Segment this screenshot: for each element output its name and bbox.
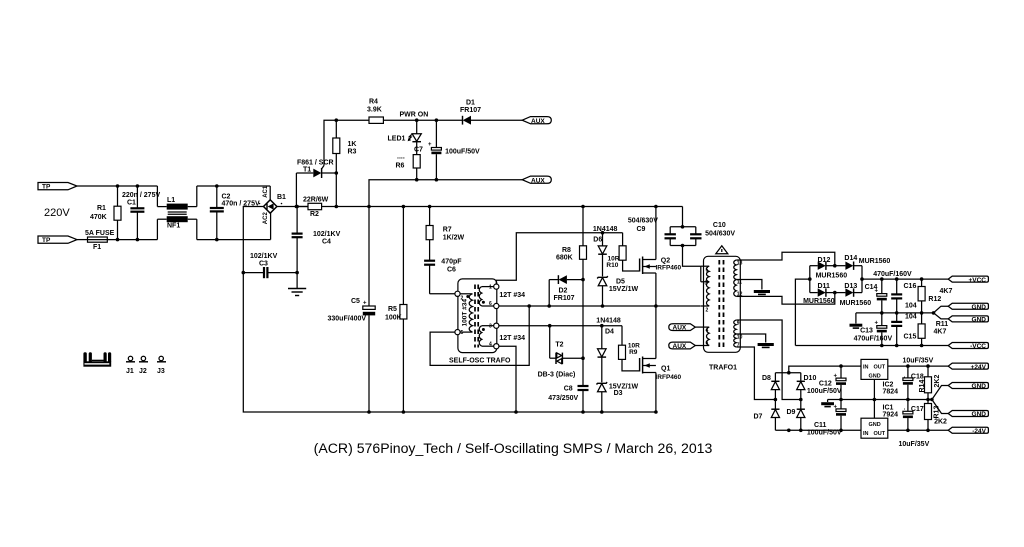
wire IC2 out bbox=[888, 365, 948, 367]
svg-text:C10: C10 bbox=[713, 222, 726, 229]
svg-text:C2: C2 bbox=[222, 194, 231, 201]
svg-text:....: .... bbox=[397, 154, 405, 161]
svg-text:C16: C16 bbox=[904, 283, 917, 290]
diac T2 DB-3 bbox=[538, 326, 583, 379]
svg-text:R4: R4 bbox=[369, 99, 378, 106]
svg-text:MUR1560: MUR1560 bbox=[859, 258, 891, 265]
svg-text:-24V: -24V bbox=[972, 428, 986, 435]
diode D7 bbox=[754, 409, 780, 430]
svg-text:OUT: OUT bbox=[874, 364, 886, 370]
svg-text:2K2: 2K2 bbox=[934, 419, 947, 426]
pin 3 bbox=[494, 323, 499, 328]
svg-text:C4: C4 bbox=[322, 239, 331, 246]
capacitor C17 bbox=[903, 400, 924, 431]
svg-text:104: 104 bbox=[905, 303, 917, 310]
capacitor C9 504/630V bbox=[628, 207, 696, 246]
svg-text:T1: T1 bbox=[303, 167, 311, 174]
primary winding 5-3 bbox=[701, 266, 709, 282]
diode D10 bbox=[797, 373, 817, 409]
wire bridge joins bbox=[775, 372, 800, 374]
wire rect left common bbox=[809, 266, 811, 293]
connector J3 bbox=[157, 356, 166, 375]
svg-text:TP: TP bbox=[42, 184, 51, 191]
capacitor C14 bbox=[865, 279, 887, 313]
svg-text:C15: C15 bbox=[904, 333, 917, 340]
wire pin10 to ground bbox=[743, 334, 766, 343]
svg-text:IN: IN bbox=[863, 431, 869, 437]
pin 4 bbox=[494, 344, 499, 349]
wire minus to bottom bus bbox=[243, 273, 280, 412]
terminal AUX (mid) bbox=[522, 176, 551, 184]
terminal -24V bbox=[948, 427, 988, 435]
terminal GND (24 upper) bbox=[932, 383, 989, 400]
resistor R1 bbox=[90, 186, 121, 240]
secondary winding 10-7 bbox=[734, 334, 743, 349]
pin 6 bbox=[494, 303, 499, 308]
svg-text:2: 2 bbox=[706, 308, 709, 314]
svg-text:D13: D13 bbox=[844, 283, 857, 290]
svg-text:D7: D7 bbox=[754, 414, 763, 421]
svg-text:4: 4 bbox=[706, 328, 709, 334]
capacitor C7 100uF/50V bbox=[428, 120, 480, 180]
svg-text:C17: C17 bbox=[911, 406, 924, 413]
capacitor C13 bbox=[854, 313, 893, 346]
svg-text:F861 / SCR: F861 / SCR bbox=[297, 160, 334, 167]
wire mid gnd rail bbox=[856, 312, 934, 314]
resistor R6 bbox=[396, 147, 424, 180]
resistor R10 bbox=[606, 233, 639, 271]
svg-text:220V: 220V bbox=[44, 207, 70, 219]
svg-text:102/1KV: 102/1KV bbox=[250, 253, 278, 260]
svg-text:(ACR) 576Pinoy_Tech / Self-Osc: (ACR) 576Pinoy_Tech / Self-Oscillating S… bbox=[314, 440, 713, 456]
wire pin3 row bbox=[499, 325, 622, 327]
svg-text:B1: B1 bbox=[277, 194, 286, 201]
svg-text:12T #34: 12T #34 bbox=[499, 292, 525, 299]
terminal GND (vcc upper) bbox=[934, 303, 989, 313]
wire pin7 to d-bridge bbox=[743, 347, 775, 400]
resistor R13 2K2 bbox=[925, 400, 948, 431]
svg-text:C5: C5 bbox=[351, 298, 360, 305]
aux winding 4-6 bbox=[695, 327, 710, 346]
ground bbox=[288, 289, 306, 296]
svg-text:7824: 7824 bbox=[883, 388, 899, 395]
thyristor T1 F861/SCR bbox=[296, 160, 336, 179]
capacitor C10 504/630V bbox=[670, 222, 735, 246]
secondary winding 11-12 bbox=[734, 280, 743, 298]
terminal GND (vcc lower) bbox=[934, 313, 989, 324]
diode D13 MUR1560 bbox=[835, 283, 871, 307]
svg-text:R9: R9 bbox=[629, 349, 638, 356]
svg-text:C18: C18 bbox=[911, 374, 924, 381]
diode D4 1N4148 bbox=[596, 318, 621, 383]
svg-text:R5: R5 bbox=[388, 306, 397, 313]
svg-text:R14: R14 bbox=[919, 380, 926, 393]
capacitor C1 bbox=[122, 186, 160, 240]
svg-text:AUX: AUX bbox=[531, 118, 545, 125]
wire pin13 to rect row bbox=[743, 252, 835, 265]
svg-text:+: + bbox=[875, 321, 879, 327]
pin 2 bbox=[455, 291, 460, 296]
svg-text:R10: R10 bbox=[606, 262, 618, 269]
svg-text:AC2: AC2 bbox=[263, 212, 269, 225]
svg-text:1N4148: 1N4148 bbox=[596, 318, 621, 325]
svg-text:1: 1 bbox=[489, 285, 492, 291]
svg-text:5: 5 bbox=[461, 330, 464, 336]
svg-text:IN: IN bbox=[863, 364, 869, 370]
svg-text:2: 2 bbox=[461, 296, 464, 302]
terminal AUX (top) bbox=[522, 117, 551, 125]
capacitor C5 330uF/400V bbox=[328, 207, 376, 413]
capacitor C3 bbox=[243, 253, 297, 278]
wire pin4 to bottom bus bbox=[499, 346, 516, 412]
svg-text:+VCC: +VCC bbox=[968, 277, 986, 284]
svg-text:C11: C11 bbox=[814, 422, 827, 429]
svg-text:T2: T2 bbox=[555, 342, 563, 349]
svg-text:100uF/50V: 100uF/50V bbox=[807, 388, 842, 395]
capacitor C2 bbox=[210, 186, 260, 240]
wire pin11 to ground bbox=[743, 280, 762, 290]
connector J2 bbox=[139, 356, 148, 375]
svg-text:100K: 100K bbox=[385, 315, 402, 322]
svg-text:3: 3 bbox=[489, 324, 492, 330]
wire bridge plus bbox=[277, 206, 308, 208]
terminal AUX (trafo lower) bbox=[669, 342, 696, 350]
svg-text:1N4148: 1N4148 bbox=[593, 226, 618, 233]
warning triangle bbox=[716, 246, 728, 254]
svg-text:C3: C3 bbox=[259, 261, 268, 268]
regulator IC1 7924 bbox=[861, 400, 898, 439]
terminal GND (24 lower) bbox=[932, 400, 989, 419]
svg-text:D9: D9 bbox=[787, 409, 796, 416]
terminal -VCC bbox=[948, 343, 988, 351]
resistor R11 4K7 bbox=[918, 313, 948, 346]
svg-text:MUR1560: MUR1560 bbox=[816, 272, 848, 279]
terminal TP (top) bbox=[38, 183, 77, 191]
LED LED1 bbox=[388, 120, 422, 154]
wire rect right common bbox=[861, 266, 863, 293]
svg-text:Q2: Q2 bbox=[661, 258, 670, 265]
primary winding 100T bbox=[460, 294, 473, 332]
capacitor C6 470pF bbox=[424, 259, 462, 294]
svg-text:473/250V: 473/250V bbox=[548, 395, 578, 402]
wire D2 left to midpoint bbox=[548, 280, 550, 306]
svg-text:100uF/50V: 100uF/50V bbox=[445, 149, 480, 156]
svg-text:IRFP460: IRFP460 bbox=[656, 265, 682, 272]
svg-text:D6: D6 bbox=[593, 237, 602, 244]
svg-text:220n / 275V: 220n / 275V bbox=[122, 192, 160, 199]
resistor R14 2K2 bbox=[919, 366, 941, 399]
wire -VCC rail bbox=[795, 345, 948, 347]
svg-text:GND: GND bbox=[972, 411, 987, 418]
svg-text:12T #34: 12T #34 bbox=[499, 335, 525, 342]
svg-text:C8: C8 bbox=[564, 386, 573, 393]
svg-text:5: 5 bbox=[706, 268, 709, 274]
wire R8/D2 junction down bbox=[582, 280, 584, 386]
capacitor C15 104 bbox=[891, 313, 917, 346]
wire +VCC rail bbox=[862, 278, 948, 280]
svg-text:LED1: LED1 bbox=[388, 136, 406, 143]
core bbox=[474, 285, 476, 348]
svg-text:R3: R3 bbox=[348, 149, 357, 156]
svg-text:3: 3 bbox=[705, 281, 708, 287]
svg-text:104: 104 bbox=[905, 314, 917, 321]
svg-text:AUX: AUX bbox=[673, 343, 687, 350]
wire SCR gate up bbox=[324, 120, 369, 165]
svg-text:504/630V: 504/630V bbox=[628, 218, 658, 225]
node dots R1 bbox=[116, 184, 120, 188]
terminal TP (bottom) bbox=[38, 236, 77, 244]
svg-text:6: 6 bbox=[489, 301, 492, 307]
svg-text:IC1: IC1 bbox=[883, 405, 894, 412]
diode D1 FR107 bbox=[460, 100, 522, 125]
svg-text:D12: D12 bbox=[818, 257, 831, 264]
svg-text:+: + bbox=[834, 374, 838, 380]
svg-text:10uF/35V: 10uF/35V bbox=[899, 441, 930, 448]
svg-text:470pF: 470pF bbox=[441, 259, 462, 266]
wire bus after R2 bbox=[336, 206, 682, 208]
zener D5 15VZ/1W bbox=[597, 276, 638, 306]
zener D3 15VZ/1W bbox=[597, 382, 639, 412]
svg-text:C1: C1 bbox=[127, 200, 136, 207]
wire midpoint row bbox=[499, 305, 701, 307]
svg-text:10uF/35V: 10uF/35V bbox=[903, 358, 934, 365]
svg-text:+: + bbox=[875, 289, 879, 295]
svg-text:-VCC: -VCC bbox=[970, 343, 986, 350]
resistor R9 bbox=[619, 326, 641, 371]
capacitor C8 473/250V bbox=[548, 386, 588, 413]
svg-text:R11: R11 bbox=[936, 321, 949, 328]
wire pin12 to rect row bbox=[743, 293, 835, 305]
connector J1 bbox=[126, 356, 135, 375]
svg-text:4K7: 4K7 bbox=[934, 328, 947, 335]
svg-text:FR107: FR107 bbox=[460, 107, 481, 114]
svg-text:AUX: AUX bbox=[531, 177, 545, 184]
svg-text:2K2: 2K2 bbox=[934, 375, 941, 388]
svg-text:J2: J2 bbox=[139, 368, 147, 375]
svg-text:GND: GND bbox=[869, 374, 881, 380]
terminal +VCC bbox=[948, 276, 988, 284]
terminal +24V bbox=[948, 363, 988, 371]
svg-text:GND: GND bbox=[972, 383, 987, 390]
diode D6 1N4148 bbox=[593, 226, 618, 276]
wire top AC bbox=[77, 185, 157, 187]
diode D9 bbox=[787, 409, 805, 430]
svg-text:C12: C12 bbox=[819, 381, 832, 388]
svg-text:C7: C7 bbox=[414, 147, 423, 154]
transistor Q1 IRFP460 bbox=[640, 306, 682, 412]
secondary winding 12T (upper) bbox=[479, 287, 525, 306]
svg-text:OUT: OUT bbox=[874, 431, 886, 437]
svg-text:3.9K: 3.9K bbox=[367, 107, 382, 114]
diode D11 MUR1560 bbox=[803, 283, 835, 305]
svg-text:D5: D5 bbox=[616, 279, 625, 286]
wire top to D1 bbox=[417, 119, 462, 121]
svg-text:10: 10 bbox=[737, 335, 743, 341]
svg-text:GND: GND bbox=[972, 304, 987, 311]
svg-text:330uF/400V: 330uF/400V bbox=[328, 316, 367, 323]
wire aux mid bbox=[369, 180, 522, 207]
wire mid gnd rail (24V) bbox=[828, 399, 932, 401]
svg-text:GND: GND bbox=[972, 316, 987, 323]
resistor R3 bbox=[333, 120, 357, 173]
node R3 top bbox=[335, 118, 339, 122]
secondary winding 9-10 bbox=[734, 320, 743, 334]
svg-text:100T #34: 100T #34 bbox=[462, 299, 469, 327]
svg-text:504/630V: 504/630V bbox=[705, 231, 735, 238]
svg-text:R2: R2 bbox=[310, 211, 319, 218]
wire pin1 riser bbox=[496, 233, 622, 284]
choke L1 / NF1 bbox=[157, 186, 216, 240]
ground pin11 bbox=[754, 292, 770, 295]
svg-text:C9: C9 bbox=[637, 226, 646, 233]
fuse F1 bbox=[85, 230, 115, 251]
regulator IC2 7824 bbox=[861, 359, 898, 399]
wire bridge minus bbox=[243, 207, 263, 273]
wire bottom -24 rail bbox=[775, 429, 861, 431]
transformer TR self-osc body bbox=[449, 279, 511, 365]
svg-text:D1: D1 bbox=[466, 100, 475, 107]
svg-text:NF1: NF1 bbox=[167, 223, 180, 230]
svg-text:4K7: 4K7 bbox=[940, 288, 953, 295]
svg-text:MUR1560: MUR1560 bbox=[840, 300, 872, 307]
svg-text:11: 11 bbox=[737, 280, 743, 286]
resistor R5 100K bbox=[385, 207, 407, 413]
capacitor C18 bbox=[903, 366, 924, 399]
wire IC1 out bbox=[888, 429, 948, 431]
svg-text:R6: R6 bbox=[396, 163, 405, 170]
svg-text:470K: 470K bbox=[90, 214, 107, 221]
bridge rectifier B1 bbox=[259, 185, 286, 224]
svg-text:R8: R8 bbox=[562, 247, 571, 254]
svg-text:+: + bbox=[834, 404, 838, 410]
primary winding 3-2 bbox=[701, 281, 709, 314]
resistor R12 4K7 bbox=[918, 279, 952, 313]
svg-text:15VZ/1W: 15VZ/1W bbox=[609, 286, 639, 293]
diode D8 bbox=[762, 373, 780, 409]
wire SCR anode down bbox=[295, 173, 297, 207]
svg-text:7: 7 bbox=[737, 343, 740, 349]
svg-text:D14: D14 bbox=[844, 255, 857, 262]
svg-text:D4: D4 bbox=[605, 328, 614, 335]
svg-text:J1: J1 bbox=[126, 368, 134, 375]
svg-text:F1: F1 bbox=[93, 244, 101, 251]
resistor R4 bbox=[367, 99, 417, 124]
svg-text:J3: J3 bbox=[157, 368, 165, 375]
svg-text:22R/6W: 22R/6W bbox=[303, 197, 329, 204]
svg-text:R12: R12 bbox=[928, 296, 941, 303]
ground mid rail bbox=[850, 313, 863, 328]
wire pin5 to midpoint bbox=[430, 306, 529, 365]
svg-text:7924: 7924 bbox=[883, 412, 899, 419]
svg-text:TRAFO1: TRAFO1 bbox=[709, 364, 737, 371]
svg-text:6: 6 bbox=[706, 341, 709, 347]
svg-text:AC1: AC1 bbox=[263, 185, 269, 198]
svg-text:13: 13 bbox=[737, 261, 743, 267]
svg-text:9: 9 bbox=[737, 321, 740, 327]
capacitor C16 104 bbox=[891, 279, 917, 313]
svg-text:TP: TP bbox=[42, 237, 51, 244]
svg-text:R1: R1 bbox=[97, 205, 106, 212]
transformer TRAFO1 body bbox=[704, 256, 741, 371]
svg-text:100uF/50V: 100uF/50V bbox=[807, 430, 842, 437]
svg-text:IC2: IC2 bbox=[883, 381, 894, 388]
resistor R2 bbox=[296, 197, 336, 219]
pin 1 bbox=[494, 284, 499, 289]
svg-text:D3: D3 bbox=[614, 390, 623, 397]
ground mid 24V bbox=[821, 400, 834, 407]
svg-text:4: 4 bbox=[489, 342, 492, 348]
svg-text:MUR1560: MUR1560 bbox=[803, 298, 835, 305]
svg-text:470uF/160V: 470uF/160V bbox=[854, 336, 893, 343]
svg-text:470uF/160V: 470uF/160V bbox=[873, 271, 912, 278]
svg-text:+: + bbox=[428, 142, 432, 148]
svg-text:12: 12 bbox=[737, 292, 743, 298]
resistor R8 680K bbox=[556, 207, 587, 280]
wire pin5-pin3 bridge bbox=[700, 266, 702, 282]
svg-text:R7: R7 bbox=[443, 227, 452, 234]
secondary winding 12T (lower) bbox=[479, 326, 525, 347]
svg-text:102/1KV: 102/1KV bbox=[313, 231, 341, 238]
pin 5 bbox=[455, 330, 460, 335]
diode D12 MUR1560 bbox=[810, 257, 847, 279]
wire +24 rail dots bbox=[839, 364, 843, 368]
ground pin10 bbox=[758, 345, 774, 348]
terminal AUX (trafo upper) bbox=[669, 324, 696, 332]
svg-text:L1: L1 bbox=[167, 197, 175, 204]
wire AC to bridge bbox=[217, 185, 270, 187]
svg-text:1K/2W: 1K/2W bbox=[443, 235, 465, 242]
resistor R7 1K/2W bbox=[426, 207, 464, 261]
svg-text:SELF-OSC TRAFO: SELF-OSC TRAFO bbox=[449, 358, 511, 365]
svg-text:PWR ON: PWR ON bbox=[400, 112, 429, 119]
svg-text:DB-3 (Diac): DB-3 (Diac) bbox=[538, 371, 576, 378]
heatsink symbol bbox=[83, 352, 111, 366]
svg-text:GND: GND bbox=[869, 422, 881, 428]
svg-text:C6: C6 bbox=[447, 267, 456, 274]
secondary winding 13-11 bbox=[734, 260, 743, 280]
wire R3 to bus bbox=[335, 173, 337, 207]
wire bottom bus bbox=[280, 411, 656, 413]
svg-text:IRFP460: IRFP460 bbox=[656, 374, 682, 381]
diode D14 MUR1560 bbox=[835, 255, 891, 270]
svg-text:+24V: +24V bbox=[971, 364, 987, 371]
svg-text:C13: C13 bbox=[860, 327, 873, 334]
svg-text:D8: D8 bbox=[762, 375, 771, 382]
core TRAFO1 bbox=[718, 260, 720, 349]
svg-text:FR107: FR107 bbox=[554, 295, 575, 302]
svg-text:D10: D10 bbox=[804, 375, 817, 382]
wire bottom AC bbox=[77, 239, 88, 241]
capacitor C4 bbox=[292, 207, 341, 289]
wire pin9 to d-bridge bbox=[743, 320, 801, 400]
svg-text:AUX: AUX bbox=[673, 325, 687, 332]
svg-text:D2: D2 bbox=[559, 288, 568, 295]
wire C9 bottom to trafo pin5 bbox=[683, 246, 701, 267]
svg-text:+: + bbox=[363, 301, 367, 307]
transistor Q2 IRFP460 bbox=[640, 207, 682, 306]
svg-text:D11: D11 bbox=[818, 283, 831, 290]
svg-text:Q1: Q1 bbox=[661, 366, 670, 373]
svg-text:680K: 680K bbox=[556, 255, 573, 262]
capacitor C11 bbox=[807, 400, 846, 437]
svg-text:1K: 1K bbox=[348, 141, 357, 148]
svg-text:5A FUSE: 5A FUSE bbox=[85, 230, 115, 237]
capacitor C12 bbox=[807, 366, 846, 399]
diode D2 FR107 bbox=[549, 275, 583, 302]
